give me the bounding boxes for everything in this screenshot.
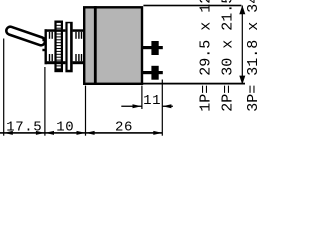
switch body (84, 6, 142, 85)
hex nut front face (49, 32, 53, 61)
dimension line 11 (121, 104, 173, 108)
chamfer bar lower (45, 61, 66, 64)
extension line body bottom right (142, 83, 246, 85)
svg-text:3P= 31.8 x 34: 3P= 31.8 x 34 (245, 0, 262, 112)
rear chamfer bar lower (73, 61, 85, 64)
arrow 26 right (153, 131, 162, 135)
dimension line bottom (0, 132, 162, 134)
chamfer bar upper (45, 29, 66, 32)
lever bat (5, 26, 46, 52)
rear chamfer bar upper (73, 29, 85, 32)
terminal lug 1 (141, 41, 162, 55)
svg-text:26: 26 (115, 120, 133, 136)
arrow 10 left (45, 131, 54, 135)
extension line body left (85, 86, 86, 136)
arrow 10 right / 26 left (77, 131, 86, 135)
threaded bushing (54, 21, 63, 73)
extension line body top right (143, 5, 241, 7)
terminal lug 2 (141, 66, 162, 80)
svg-text:2P= 30 x 21.5: 2P= 30 x 21.5 (220, 0, 237, 112)
svg-text:11: 11 (143, 93, 161, 109)
vertical dimension line (239, 5, 245, 84)
hex nut rear ring (65, 22, 72, 73)
extension line bushing start (44, 67, 45, 136)
svg-text:10: 10 (56, 120, 74, 136)
arrow 17.5 right (36, 131, 45, 135)
locking ring edge (45, 29, 47, 64)
svg-text:17.5: 17.5 (6, 120, 42, 136)
svg-text:1P= 29.5 x 12.7: 1P= 29.5 x 12.7 (198, 0, 215, 112)
arrow 17.5 left (4, 131, 13, 135)
extension line terminal tip (162, 80, 163, 136)
hex nut rear face (75, 32, 82, 61)
extension line body right (141, 86, 142, 109)
extension line lever tip (3, 39, 4, 136)
